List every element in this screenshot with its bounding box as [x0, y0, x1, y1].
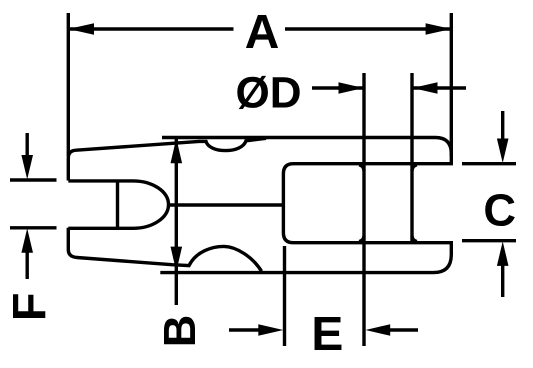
dimension F lower arrow line — [26, 250, 29, 279]
dimension A extension line right — [450, 13, 453, 156]
fork outer top edge with groove dip — [68, 138, 266, 180]
dimension A line right segment — [285, 27, 451, 30]
label F (rotated) — [13, 294, 45, 318]
dimension F upper tick — [10, 178, 57, 181]
dimension OD left arrowhead — [339, 82, 364, 94]
dimension F upper arrowhead — [21, 155, 33, 179]
label B (rotated) — [164, 317, 195, 344]
label diameter-sign of D — [237, 76, 268, 109]
label A — [246, 15, 278, 48]
dimension F lower tick — [10, 226, 57, 229]
dimension B lower arrowhead — [171, 247, 183, 272]
dimension C upper arrow line — [501, 111, 504, 140]
dimension E arrow line right — [390, 328, 418, 331]
label E — [315, 317, 342, 350]
dimension OD right arrowhead — [413, 82, 438, 94]
pin bottom-left fillet — [359, 236, 364, 242]
swivel neck line — [169, 203, 284, 206]
pin right edge / OD extension line — [410, 73, 413, 243]
label D — [273, 77, 300, 107]
dimension C upper arrowhead — [497, 139, 509, 164]
pin top-left fillet — [359, 165, 364, 171]
fork slot outline — [68, 181, 168, 228]
dimension C lower arrow line — [501, 264, 504, 297]
dimension E left arrowhead — [258, 324, 283, 336]
dimension C upper tick — [462, 162, 516, 165]
dimension OD line right segment — [413, 86, 466, 89]
dimension A left arrowhead — [68, 23, 94, 35]
dimension B line — [175, 138, 178, 305]
dimension E extension line left — [283, 246, 286, 346]
dimension B upper arrowhead — [171, 138, 183, 163]
dimension E arrow line left — [229, 328, 260, 331]
pin top-right fillet — [412, 165, 417, 171]
dimension C lower arrowhead — [497, 241, 509, 266]
pin left edge / OD-E extension line — [362, 73, 365, 346]
fork slot inner vertical — [116, 181, 119, 228]
dimension E right arrowhead — [366, 324, 391, 336]
dimension F lower arrowhead — [21, 228, 33, 252]
label C — [485, 194, 515, 226]
dimension OD line left segment — [312, 86, 363, 89]
body outline — [160, 138, 451, 273]
dimension A extension line left — [67, 13, 70, 156]
dimension C lower tick — [462, 239, 516, 242]
pin bottom-right fillet — [412, 236, 417, 242]
fork outer bottom edge with hump — [68, 228, 261, 271]
dimension A line left segment — [68, 27, 233, 30]
dimension A right arrowhead — [426, 23, 452, 35]
dimension F upper arrow line — [26, 133, 29, 158]
